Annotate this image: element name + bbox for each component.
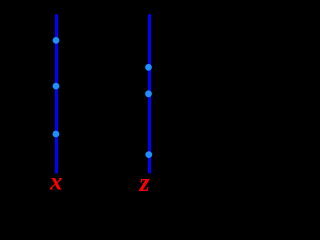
node right dot 3 (145, 151, 152, 158)
svg-text:x: x (49, 168, 63, 191)
node left dot 3 (53, 131, 60, 138)
svg-text:z: z (138, 168, 150, 191)
wire right vertical line (148, 14, 151, 173)
node right dot 1 (145, 64, 152, 71)
node left dot 2 (53, 83, 60, 90)
node right dot 2 (145, 90, 152, 97)
wire left vertical line (55, 14, 58, 173)
node left dot 1 (53, 37, 60, 44)
